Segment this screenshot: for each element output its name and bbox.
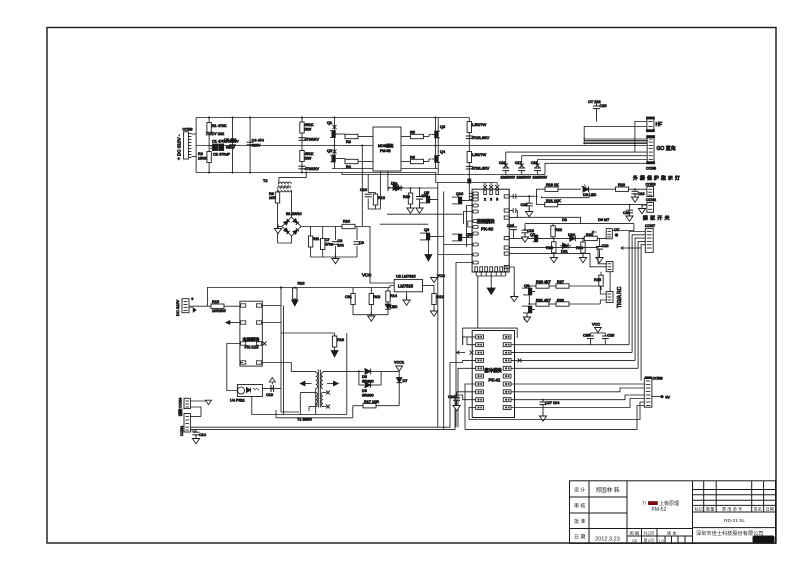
capacitor C7 [321,227,334,258]
capacitor C8 [332,227,344,258]
svg-text:D9 M7: D9 M7 [598,218,609,222]
svg-text:1.5K/7W: 1.5K/7W [472,153,487,157]
capacitor C29 divider lower [299,166,320,171]
svg-text:D11: D11 [561,250,568,254]
zener D11 [560,243,571,254]
svg-text:R3: R3 [346,140,351,144]
svg-text:C9: C9 [359,241,364,245]
svg-text:第1页: 第1页 [644,537,655,544]
resistor R3 gate [339,134,374,144]
svg-text:R6: R6 [410,156,415,160]
wire module rail to PK41 loop [477,276,479,328]
svg-text:Q11: Q11 [466,233,473,237]
capacitor C33 series [513,194,516,199]
svg-text:C7: C7 [325,238,330,242]
svg-text:5V: 5V [666,395,671,399]
IC U1 main drive module [373,127,401,171]
capacitor C26 [598,333,614,345]
transistor Q9 [522,306,535,321]
resistor R27 divider upper [300,118,314,173]
wire from module pin [509,195,535,197]
resistor R28 divider lower [300,151,314,162]
resistor R19 [545,183,581,191]
core [317,370,319,408]
svg-text:VCC: VCC [592,323,600,327]
svg-text:数量: 数量 [706,505,714,512]
wire lower branch [542,193,590,198]
svg-text:D5: D5 [362,375,367,379]
wire module to driver rows [509,267,514,296]
connector J5 HF [646,117,662,132]
svg-text:Q10: Q10 [456,192,463,196]
wire bottom pins to gnd [476,272,506,295]
capacitor C18 [531,161,548,180]
svg-text:451K: 451K [305,152,314,156]
wire bridge output [301,226,342,228]
wire J1 to bus [191,133,196,135]
wire sec to bridge [291,190,293,217]
svg-text:1.0: 1.0 [658,538,664,543]
wire left pins [463,337,476,345]
capacitor C6 snub [466,166,490,170]
svg-text:C11: C11 [345,295,352,299]
svg-text:R14: R14 [390,294,397,298]
IC U3 power module PK-123 [240,301,262,366]
connector J3 [178,398,191,416]
svg-text:VCC: VCC [362,273,371,278]
svg-text:D8: D8 [562,218,567,222]
X mark pin [263,342,267,346]
connector J10 [606,262,613,272]
resistor R6 gate [401,156,431,164]
svg-text:C17: C17 [515,161,521,165]
wire diode out [381,370,399,372]
svg-text:PK-41: PK-41 [489,378,502,383]
svg-text:D6: D6 [362,389,367,393]
svg-text:日期: 日期 [766,506,774,512]
svg-text:C32: C32 [521,203,528,207]
svg-text:Q8: Q8 [524,284,529,288]
wire J2 to R15 [189,305,211,307]
wire top bus [196,117,469,119]
svg-text:R27: R27 [557,280,564,284]
svg-text:DC 310V: DC 310V [175,299,180,316]
svg-text:CON3: CON3 [646,183,656,187]
svg-text:深圳市佳士科技股份有限公司: 深圳市佳士科技股份有限公司 [696,529,763,537]
svg-text:郑国林 韩: 郑国林 韩 [596,486,620,494]
capacitor C21 [507,224,517,239]
wire GO bundle [583,138,647,144]
svg-text:R31 4K7: R31 4K7 [536,299,551,303]
capacitor C5 snub [466,136,490,140]
svg-text:R11: R11 [313,237,320,241]
wire bottom bus jog [342,173,545,175]
svg-text:接驳开关: 接驳开关 [643,215,672,222]
node arrow minus [189,308,197,313]
connector J6 GO [646,136,676,171]
wire long bus B [190,395,462,429]
svg-text:GO 直充: GO 直充 [657,145,676,152]
ground [332,255,339,264]
wire diode row [525,223,634,225]
svg-text:Q6: Q6 [424,228,429,232]
capacitor C34 series [509,208,517,217]
diode D1 [388,182,403,192]
svg-text:签名: 签名 [754,505,762,512]
capacitor C20 [623,204,633,221]
svg-text:遥控 CON4: 遥控 CON4 [178,398,183,416]
resistor R4 gate [339,159,374,170]
svg-text:10R/2W: 10R/2W [212,309,226,313]
capacitor C10 [360,188,372,209]
wire vertical x438 [437,118,439,175]
svg-text:C27 104: C27 104 [545,401,559,405]
VCC arrow caps row [592,323,601,333]
svg-text:LM7815: LM7815 [398,284,414,289]
connector J8 switch [646,198,656,212]
svg-text:C3 474: C3 474 [224,138,236,142]
svg-text:R19 1K: R19 1K [546,183,559,187]
resistor R18 [331,333,344,357]
wire long bus C from J3 [190,416,201,418]
wire main row [509,237,606,239]
wire left pin row8 [467,233,473,235]
resistor R7 snub [467,118,486,175]
svg-text:TI: TI [642,501,646,506]
svg-text:10R: 10R [269,196,276,200]
wire left pin row5 [464,212,473,225]
svg-text:PM-52: PM-52 [380,149,391,153]
wire right pins to x281 [262,305,281,307]
net arrow left [457,351,466,354]
wire bundle from J11 [629,232,645,381]
svg-text:C16: C16 [499,161,505,165]
wire under box [469,402,644,420]
resistor R10 [342,220,355,229]
svg-text:SR360: SR360 [362,394,374,398]
power arrow VCC1 [394,361,404,372]
U loop pins 6-7 [468,221,473,227]
resistor R26 [529,280,550,288]
svg-text:+ DC 310V -: + DC 310V - [177,134,182,160]
wire box bottom drops [379,171,381,196]
svg-text:D3 LED: D3 LED [583,193,597,197]
svg-text:标记: 标记 [695,505,704,512]
connector J12 [606,291,613,302]
wire left pin row4 [467,206,473,248]
primary winding [316,372,318,388]
connector J1 DC310V input [177,128,193,161]
svg-text:451K: 451K [305,123,314,127]
capacitor C14 [192,430,206,438]
diode D10 [568,233,575,241]
svg-text:C13: C13 [266,393,273,397]
wire HF pin2 feed [584,127,647,141]
svg-text:版 本: 版 本 [667,529,677,536]
svg-text:B1 2W10: B1 2W10 [286,212,302,216]
X mark right pin [518,358,522,362]
wire row2 rail [332,168,438,170]
capacitor C12 [430,286,443,317]
top pins [484,190,487,194]
wire left pin row9 down [444,244,473,246]
wire left pin row9 [469,408,476,420]
svg-text:电源模块: 电源模块 [243,336,261,343]
wire gate rail [380,223,429,225]
svg-text:5: 5 [496,198,498,202]
capacitor C23 [596,238,609,262]
svg-text:PK-123: PK-123 [245,345,260,350]
capacitor C11 [345,288,355,315]
resistor R16 [292,282,305,307]
capacitor C28 divider upper [299,138,320,142]
wire bridge bottom loop [278,236,292,243]
secondary upper [321,372,323,388]
bus junction dots [208,117,210,119]
wire bottom bus [196,172,436,174]
capacitor C17 [515,161,532,180]
resistor R2 [198,152,211,163]
svg-text:102/600V: 102/600V [533,176,548,180]
ground at J8 [638,205,647,214]
ground [368,312,375,321]
connector J9 [606,228,620,239]
svg-text:图 编: 图 编 [630,529,640,536]
svg-text:CY 222: CY 222 [212,132,225,136]
ground below J4 [192,435,199,444]
svg-text:R1 470K: R1 470K [212,124,227,128]
svg-text:R26 4K7: R26 4K7 [536,280,551,284]
ground row2 [523,313,530,322]
resistor R25 [594,272,603,290]
svg-text:C24: C24 [448,395,455,399]
capacitor C25 [583,333,598,345]
resistor R22 [551,224,562,239]
svg-text:470u: 470u [325,243,333,247]
resistor R31 [529,299,550,307]
svg-text:2: 2 [484,198,486,202]
wire right pin rows to bundle [511,344,629,346]
capacitor C19 [631,188,644,202]
wire riser bus right [443,192,445,430]
wire riser bus left [437,183,439,428]
resistor R33 [546,238,557,262]
svg-text:R13: R13 [373,295,380,299]
svg-text:C31: C31 [422,194,429,198]
title block outline [570,481,776,544]
svg-text:R5: R5 [410,131,415,135]
svg-text:+: + [191,297,194,302]
svg-text:MOS模块: MOS模块 [378,143,394,148]
svg-text:150K: 150K [198,157,207,161]
svg-text:U4 P521: U4 P521 [230,399,245,403]
capacitor C24 [448,392,476,411]
wire source rail [387,213,463,215]
wire from module pin [536,196,538,204]
svg-text:CON8: CON8 [653,377,663,381]
svg-text:C19: C19 [638,192,645,196]
diode D6 [359,371,381,397]
capacitor C13 [262,385,281,397]
LED D2 [371,288,397,315]
svg-text:C18: C18 [531,161,537,165]
svg-text:C25: C25 [583,334,590,338]
resistor R23 [584,233,597,241]
wire vertical x281 [280,288,282,413]
svg-text:设 计: 设 计 [574,486,585,493]
svg-text:Q1: Q1 [327,121,332,125]
transistor Q11 [452,233,473,241]
svg-text:102/600V: 102/600V [517,176,532,180]
svg-text:R15: R15 [212,300,219,304]
wire opto to rails [252,397,284,415]
svg-text:脉冲模块: 脉冲模块 [485,367,503,374]
svg-text:Q3: Q3 [440,125,445,129]
svg-text:LED: LED [390,305,398,309]
svg-text:2012.3.23: 2012.3.23 [595,537,620,543]
wire bus B to pin [463,395,476,400]
svg-text:日 期: 日 期 [574,534,585,540]
capacitor C22 [521,229,534,243]
resistor R5 gate [401,131,431,139]
svg-text:D1: D1 [393,182,398,186]
resistor R15 [211,300,240,313]
capacitor C3 [224,118,236,173]
ground under Q6 [425,240,432,261]
mosfet Q3 [432,118,446,146]
wire J3 pins [190,407,201,417]
svg-text:Q4: Q4 [440,150,445,154]
svg-text:D7: D7 [403,379,408,383]
svg-text:R32: R32 [557,299,564,303]
mosfet Q1 [327,118,339,146]
capacitor C16 [499,161,516,180]
wire right pin row6 to connector [511,383,644,385]
svg-text:C26: C26 [607,334,614,338]
ground at bridge [274,225,282,234]
ground U2 [403,292,410,305]
diode D5 [358,369,381,384]
resistor R13 [369,288,380,315]
svg-text:CON4: CON4 [180,426,184,436]
wire left pin down [240,362,243,364]
bridge rectifier B1 [282,212,302,236]
svg-text:472/1.6KV: 472/1.6KV [472,167,490,171]
connector J4 [180,414,190,437]
svg-text:R17 10R: R17 10R [364,400,379,404]
svg-text:Q2: Q2 [327,149,332,153]
net arrow [592,231,597,234]
IC U6 pulse module [472,331,514,418]
capacitor C27 [539,399,559,421]
svg-text:U2 LM7815: U2 LM7815 [396,275,416,279]
capacitor C9 [354,227,364,258]
svg-text:/2W: /2W [305,128,312,132]
IC U5 control module [472,185,509,272]
resistor R11 [308,227,319,258]
wire riser top rail [436,173,497,183]
svg-text:T2: T2 [263,179,267,183]
capacitor C1 electrolytic [206,132,239,157]
wire bottom rails [284,414,347,416]
wire PK123 out to T1 [281,363,311,372]
svg-text:控制模块: 控制模块 [477,218,495,225]
transistor Q7 [530,233,541,242]
wire GO row3 [538,160,648,166]
svg-text:R2: R2 [198,152,203,156]
svg-text:更 改 单 号: 更 改 单 号 [722,505,742,512]
diode D8 [562,0,793,222]
wire U2 out [423,285,435,287]
svg-text:JASIC®: JASIC® [755,537,769,542]
svg-text:1.5K/7W: 1.5K/7W [472,123,487,127]
svg-text:C4 474: C4 474 [252,139,264,143]
wire T2 feed [279,173,306,185]
wire bus A to pin [463,360,476,362]
resistor R17 [353,400,399,418]
IC U2 LM7815 [394,275,422,292]
svg-text:HF: HF [656,122,663,128]
LED D3 [582,185,619,198]
resistor R1 [207,118,227,173]
svg-text:R20: R20 [618,183,625,187]
left pins [473,192,479,264]
svg-text:C23: C23 [602,244,609,248]
ground arrow up [269,378,275,385]
diode D1 [388,182,438,191]
svg-text:102/600V: 102/600V [501,176,516,180]
transistor Q8 [522,284,535,295]
wire J10 to J12 [609,272,611,292]
svg-text:上板原理: 上板原理 [659,500,679,507]
svg-text:CON9: CON9 [646,167,656,171]
wire left pin row10 [438,254,473,256]
wire mid bus [196,145,647,147]
svg-text:OT: OT [614,228,620,232]
zener D7 [396,371,407,405]
wire long bus A [190,363,462,428]
svg-text:C8: C8 [337,239,342,243]
svg-text:C14: C14 [199,433,206,437]
wire mid-bus drop [361,146,363,226]
svg-text:C20: C20 [623,211,630,215]
junction dot [271,388,273,390]
wire module pins to J10 [509,248,606,264]
svg-text:C2 470uF: C2 470uF [213,153,230,157]
capacitor C32 [521,196,533,216]
svg-text:R12: R12 [378,196,385,200]
wire output cont [355,227,394,284]
wire GO row4 [545,163,647,174]
resistor R30 [403,187,414,213]
wire snubber string down to pins [468,175,473,200]
svg-text:104: 104 [337,244,343,248]
svg-text:CON9: CON9 [183,128,193,132]
wire to J9 [612,224,634,231]
mosfet Q4 [432,145,446,169]
wire top rail [281,332,335,334]
wire from module pin r3 [509,217,580,223]
junction dot [280,286,282,288]
wire left pin row6 [465,384,476,429]
svg-text:R18: R18 [337,338,344,342]
wire GO row2 [522,156,648,166]
connector J7 protect lamp [646,183,656,197]
transformer T2 aux [263,179,292,192]
connector J11 multi [645,224,655,252]
svg-text:472/1KV: 472/1KV [305,138,320,142]
svg-text:C15: C15 [600,104,607,108]
